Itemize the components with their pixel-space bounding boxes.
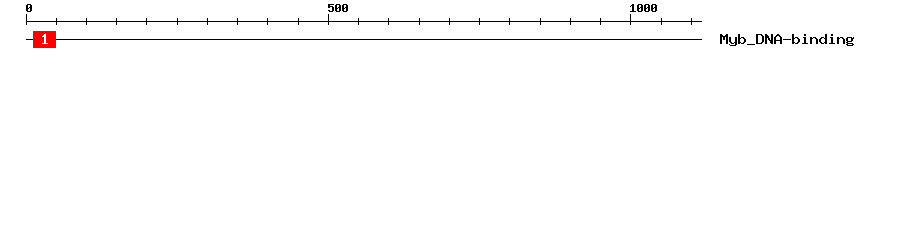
domain box numeral 1 (white) — [42, 34, 48, 44]
ruler axis line — [26, 21, 702, 22]
protein backbone line right of domain — [56, 39, 702, 40]
protein backbone line left of domain — [26, 39, 33, 40]
ruler scale label 0 — [26, 4, 32, 12]
domain name label Myb_DNA-binding — [720, 34, 854, 46]
ruler minor ticks every 50 residues — [56, 18, 692, 25]
ruler scale label 500 — [328, 4, 348, 12]
ruler major ticks at 0, 500, 1000 — [26, 14, 631, 25]
ruler scale label 1000 — [630, 4, 657, 12]
domain box (red) — [33, 31, 56, 48]
background — [0, 0, 900, 58]
